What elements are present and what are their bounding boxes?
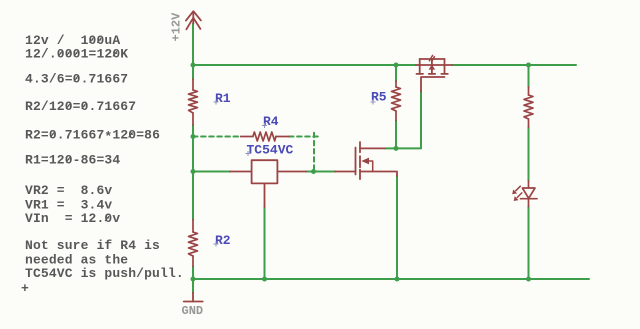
light arrow 2 [517,193,522,198]
wire: LED resistor to LED [528,127,530,181]
label R2 origin cross [214,242,219,247]
channel bars [417,73,424,75]
transistor Q1 NMOS [335,142,397,179]
pin left [230,171,252,173]
resistor R4 (horizontal) [241,132,289,141]
IC U1 TC54VC box [230,160,306,207]
wire: top rail left of PMOS [193,64,416,66]
svg-text:VR2 = 8.6v: VR2 = 8.6v [25,183,112,198]
gate lead [335,171,356,173]
wire: left vertical dashed node to gate line [192,137,194,172]
svg-text:TC54VC is push/pull.: TC54VC is push/pull. [25,266,184,281]
node: R4 to gate net [311,169,316,174]
note text block [21,33,184,296]
transistor Q2 PMOS (high side) [416,55,452,91]
channel dashes [359,142,361,152]
node: LED bottom rail [526,277,531,282]
node: drain/R5/gate riser [394,146,399,151]
wire: gate net left segment [193,171,230,173]
svg-text:VIn = 12.0v: VIn = 12.0v [25,211,120,226]
source stub [360,172,397,177]
gate bar [355,148,357,175]
wire: LED branch top [528,65,530,87]
svg-text:GND: GND [182,304,204,318]
wire: R5 bottom [395,120,397,148]
label R1 origin cross [214,100,219,105]
source-drain lead on rail [416,64,452,66]
wire: left vertical R1 to dashed node [192,125,194,137]
resistor R1 [189,79,198,125]
svg-text:+12V: +12V [170,12,184,42]
pin right [277,171,306,173]
wire: bottom rail [193,278,589,280]
wire: dashed R4 right and down [289,136,318,138]
wire: top rail right of PMOS [452,64,576,66]
top bulk line [420,58,445,60]
bulk arrow [361,158,369,165]
svg-text:R2=0.71667*120=86: R2=0.71667*120=86 [25,128,160,145]
light arrow 1 [516,186,521,191]
svg-text:R1: R1 [215,91,231,106]
label R4 origin cross [262,123,267,128]
wire: TC54VC bottom net [264,207,266,279]
stub middle [431,59,433,74]
wire: dashed vertical to gate net [313,133,315,172]
wire: +12V vertical drop [192,24,194,66]
svg-text:4.3/6=0.71667: 4.3/6=0.71667 [25,72,128,87]
diode slash marks [429,55,432,60]
svg-text:R4: R4 [263,114,279,129]
wire: R2 bottom to bottom rail [192,267,194,280]
svg-text:R1=120-86=34: R1=120-86=34 [25,153,120,168]
stub right [444,59,446,74]
wire: gate net mid segment [306,171,335,173]
node: LED branch top [526,63,531,68]
wire: NMOS source down [396,176,398,279]
node: divider mid [191,169,196,174]
svg-text:Not sure if R4 is: Not sure if R4 is [25,238,160,253]
node: source bottom rail [395,277,400,282]
node: TC54 bottom rail [262,277,267,282]
node: dashed R4 tap [191,134,196,139]
wire: dashed R4 left [193,136,241,138]
node: +12V rail tap [191,63,196,68]
resistor R6 (LED resistor, unlabeled) [524,87,533,127]
node: gnd rail left [191,277,196,282]
resistor R2 [189,220,198,267]
wire: NMOS drain to node [385,147,396,149]
svg-text:R2/120=0.71667: R2/120=0.71667 [25,99,136,114]
wire: left vertical 65 to R1 [192,65,194,79]
wire: node to PMOS gate riser [396,92,421,149]
diode D1 LED [512,181,537,207]
slashed zeros detail [50,38,132,221]
gate bar and lead [421,77,445,92]
stub left [419,59,421,74]
svg-text:12/.0001=120K: 12/.0001=120K [25,47,128,62]
body diode triangle [429,65,436,70]
wire: left vertical gate line to R2 [192,172,194,220]
label R5 origin cross [371,100,376,105]
resistor R5 [392,81,401,120]
svg-text:R2: R2 [215,233,231,248]
wire: gnd stub [192,279,194,293]
wire: LED to bottom rail [528,207,530,280]
svg-text:TC54VC: TC54VC [247,143,294,158]
drain stub [360,147,385,149]
svg-text:+: + [21,281,29,296]
pin bottom [264,183,266,207]
supply +12V arrow [186,11,201,29]
label TC54VC origin cross [246,151,251,156]
wire: R5 top [395,65,397,81]
node: R5 top [394,63,399,68]
ground GND symbol [184,293,203,302]
